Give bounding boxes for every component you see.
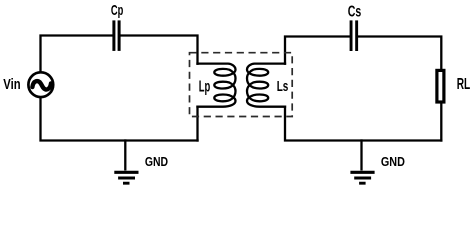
svg-text:GND: GND	[145, 154, 168, 169]
svg-text:RL: RL	[457, 76, 471, 93]
svg-text:Ls: Ls	[277, 78, 289, 95]
svg-text:Cp: Cp	[111, 3, 123, 19]
svg-text:Vin: Vin	[3, 77, 20, 93]
svg-text:GND: GND	[381, 154, 405, 169]
svg-text:Cs: Cs	[348, 3, 362, 20]
svg-text:Lp: Lp	[199, 79, 211, 96]
